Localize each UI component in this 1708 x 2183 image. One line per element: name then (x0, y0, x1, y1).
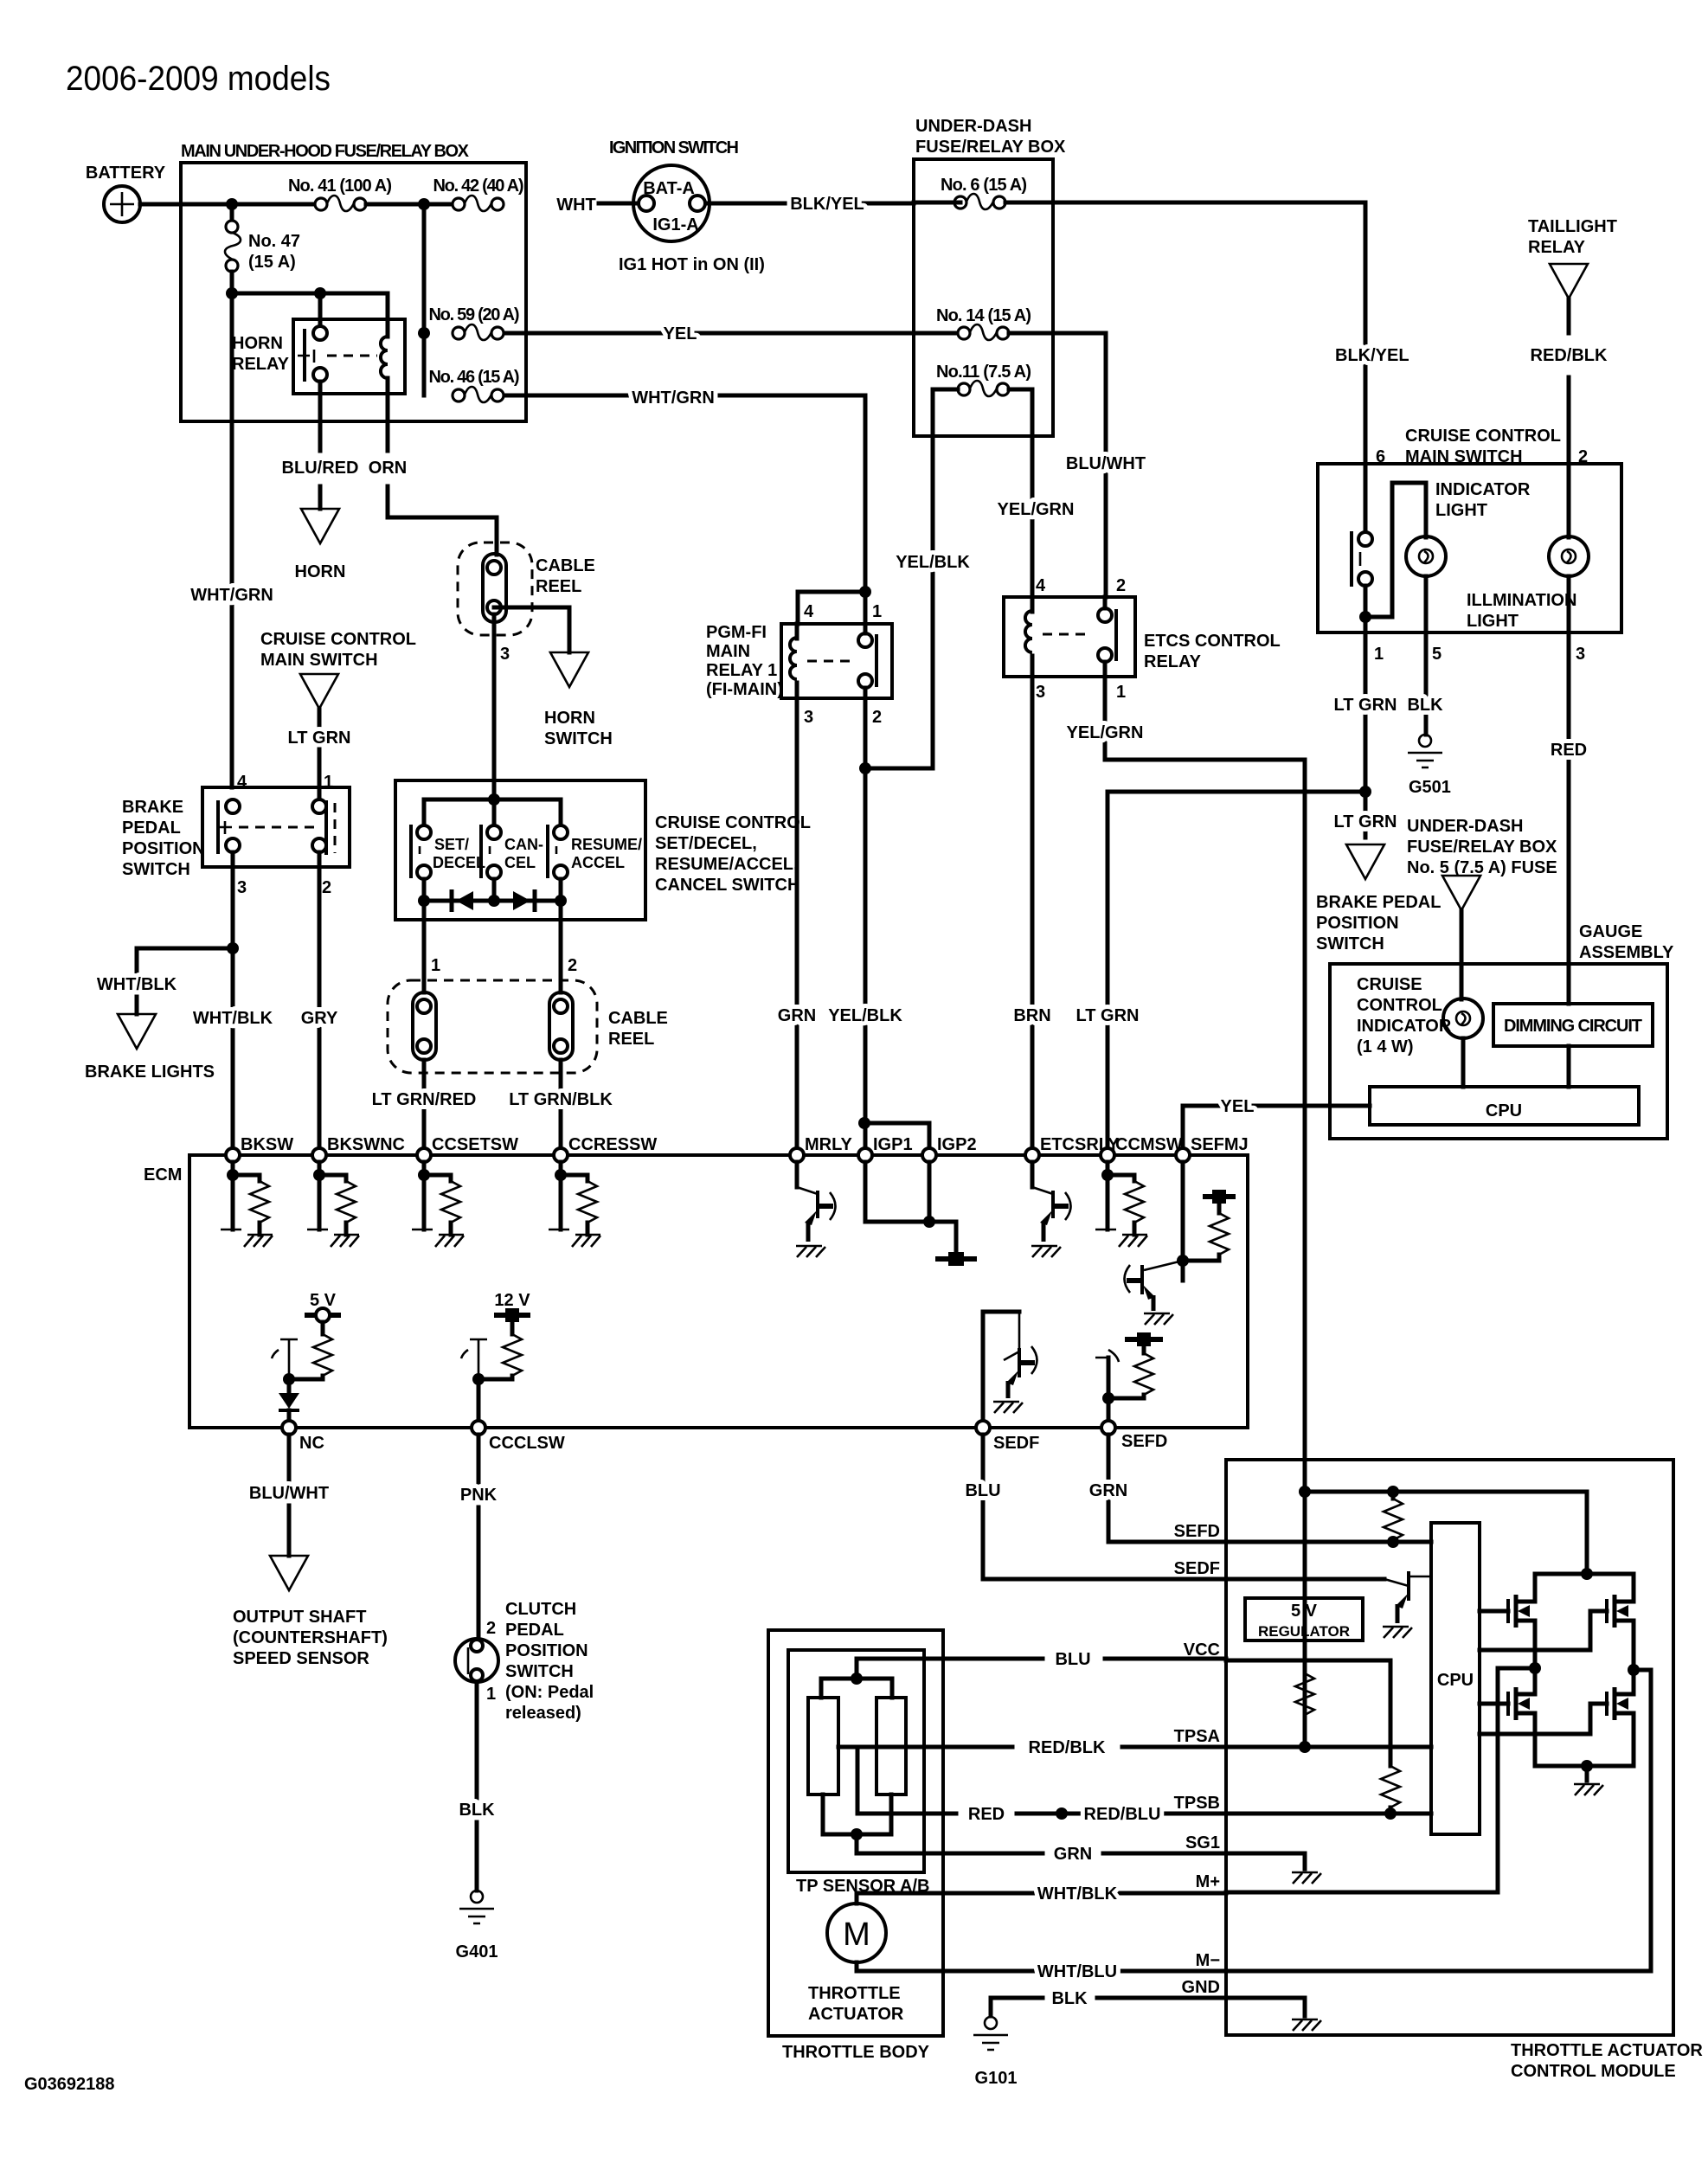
svg-text:POSITION: POSITION (1316, 914, 1399, 933)
svg-text:ACCEL: ACCEL (571, 854, 625, 871)
wire GND row (1226, 1998, 1305, 2016)
svg-text:SWITCH: SWITCH (1316, 934, 1384, 953)
TACM input transistor (1384, 1579, 1409, 1586)
MOSFET Q1 upper-left (1480, 1609, 1508, 1614)
H-bridge mid nodes (1529, 1662, 1541, 1674)
svg-text:DECEL: DECEL (433, 854, 485, 871)
svg-text:VCC: VCC (1184, 1640, 1220, 1660)
wire RED/BLK TPSA (838, 1745, 1226, 1750)
svg-text:CONTROL: CONTROL (1357, 996, 1442, 1015)
svg-text:No. 6 (15 A): No. 6 (15 A) (941, 176, 1027, 195)
cable reel upper (458, 543, 532, 635)
svg-text:LIGHT: LIGHT (1467, 612, 1519, 631)
svg-text:LT GRN: LT GRN (1334, 812, 1397, 831)
svg-text:MAIN: MAIN (706, 642, 750, 661)
svg-text:IGP1: IGP1 (873, 1135, 913, 1154)
svg-text:LT GRN/BLK: LT GRN/BLK (509, 1090, 613, 1109)
svg-text:(1 4 W): (1 4 W) (1357, 1037, 1414, 1056)
terminal BKSWNC (312, 1148, 326, 1162)
PGM-FI relay coil (790, 638, 797, 679)
wire indicator bulb to pin5 (1424, 576, 1429, 632)
wire to indicator light (1365, 483, 1426, 617)
ground G401 (459, 1891, 494, 1923)
svg-text:SWITCH: SWITCH (122, 860, 190, 879)
TP sensor VCC bus (821, 1659, 892, 1698)
wire cable reel to cruise switches (492, 614, 497, 799)
svg-text:PEDAL: PEDAL (505, 1621, 564, 1640)
wire regulator chain (1303, 1640, 1307, 1673)
svg-text:BATTERY: BATTERY (86, 164, 166, 183)
svg-text:(COUNTERSHAFT): (COUNTERSHAFT) (233, 1628, 388, 1647)
svg-text:G501: G501 (1409, 778, 1451, 797)
svg-text:RESUME/: RESUME/ (571, 836, 642, 853)
5V regulator box (1245, 1598, 1363, 1640)
MOSFET Q4 lower-right (1480, 1704, 1607, 1734)
svg-text:CABLE: CABLE (536, 556, 595, 575)
wire horn relay feed (232, 293, 388, 337)
wire LT GRN/BLK to CCRESSW (559, 1060, 563, 1148)
svg-text:PEDAL: PEDAL (122, 819, 181, 838)
wire YEL/BLK pin2 to IGP1 (864, 698, 868, 1148)
terminal NC (282, 1421, 296, 1435)
svg-text:No.11 (7.5 A): No.11 (7.5 A) (936, 363, 1031, 382)
cancel switch (487, 825, 501, 839)
resistor VCC to TPSB (1381, 1766, 1400, 1807)
wire CCCLSW to clutch switch (477, 1435, 481, 1483)
svg-text:1: 1 (872, 602, 882, 621)
svg-text:GND: GND (1182, 1978, 1220, 1997)
svg-text:CCCLSW: CCCLSW (489, 1434, 565, 1453)
svg-text:M: M (843, 1917, 870, 1953)
svg-text:SEDF: SEDF (993, 1434, 1039, 1453)
wire to brake lights (137, 948, 233, 973)
svg-text:GRN: GRN (1089, 1481, 1127, 1500)
svg-text:(15 A): (15 A) (248, 253, 296, 272)
svg-text:1: 1 (431, 956, 440, 975)
node horn relay switch branch (314, 287, 326, 299)
svg-text:RED/BLK: RED/BLK (1029, 1738, 1106, 1757)
ETCS control relay (1004, 597, 1135, 677)
svg-text:BLK: BLK (459, 1801, 495, 1820)
wire cable reel to horn switch (494, 607, 569, 652)
svg-text:BRAKE LIGHTS: BRAKE LIGHTS (85, 1063, 215, 1082)
svg-text:1: 1 (1116, 683, 1126, 702)
IGP1/IGP2 ground wires (865, 1162, 956, 1253)
svg-text:2: 2 (486, 1619, 496, 1638)
svg-text:12 V: 12 V (494, 1291, 530, 1310)
svg-text:LIGHT: LIGHT (1435, 501, 1487, 520)
svg-text:HORN: HORN (232, 334, 283, 353)
dimming circuit box (1493, 1004, 1653, 1046)
svg-text:WHT/BLK: WHT/BLK (97, 975, 177, 994)
CCMSW input cell (1095, 1162, 1147, 1247)
wire BLK GND (991, 1998, 1226, 2016)
svg-text:CRUISE CONTROL: CRUISE CONTROL (655, 813, 811, 832)
svg-text:DIMMING CIRCUIT: DIMMING CIRCUIT (1504, 1017, 1642, 1036)
BKSW input cell (221, 1162, 273, 1247)
wire YEL to under-dash box (504, 331, 958, 336)
wire VCC row (1226, 1660, 1390, 1766)
MRLY output transistor (795, 1162, 799, 1187)
svg-text:RELAY: RELAY (1144, 652, 1202, 671)
svg-text:CCRESSW: CCRESSW (568, 1135, 657, 1154)
svg-text:ECM: ECM (144, 1165, 182, 1185)
svg-text:GAUGE: GAUGE (1579, 922, 1642, 941)
wire fuse11 left to YEL/BLK (865, 389, 958, 768)
svg-text:RED: RED (968, 1805, 1005, 1824)
svg-text:WHT/BLU: WHT/BLU (1037, 1962, 1117, 1981)
svg-text:YEL/BLK: YEL/BLK (828, 1006, 902, 1025)
svg-text:SG1: SG1 (1185, 1833, 1220, 1852)
svg-text:3: 3 (1036, 683, 1045, 702)
node fuse42 feed junction (418, 198, 430, 210)
gauge CPU box (1370, 1087, 1639, 1125)
svg-text:SWITCH: SWITCH (505, 1662, 574, 1681)
wire horn relay coil to ORN (386, 378, 390, 451)
svg-text:GRY: GRY (301, 1009, 338, 1028)
wire TPSA row (1226, 1745, 1431, 1750)
svg-text:2006-2009 models: 2006-2009 models (66, 60, 331, 98)
svg-text:MAIN SWITCH: MAIN SWITCH (260, 651, 378, 670)
svg-text:YEL/GRN: YEL/GRN (1067, 723, 1144, 742)
svg-text:HORN: HORN (544, 709, 595, 728)
node TACM feed junction (1299, 1486, 1311, 1498)
svg-text:LT GRN: LT GRN (1334, 696, 1397, 715)
svg-text:ILLMINATION: ILLMINATION (1467, 591, 1576, 610)
wire relay pin4 feed (798, 592, 865, 624)
svg-text:BLU: BLU (1055, 1650, 1090, 1669)
svg-text:RED/BLK: RED/BLK (1531, 346, 1608, 365)
wire M+ row (1226, 1668, 1537, 1892)
node main switch output junction (1359, 611, 1371, 623)
svg-text:G401: G401 (456, 1942, 498, 1961)
ETCS relay coil (1025, 611, 1032, 652)
svg-text:ASSEMBLY: ASSEMBLY (1579, 943, 1674, 962)
TP sensor element A (808, 1698, 838, 1795)
svg-text:TPSA: TPSA (1174, 1727, 1220, 1746)
svg-text:INDICATOR: INDICATOR (1357, 1017, 1452, 1036)
svg-text:THROTTLE: THROTTLE (808, 1984, 901, 2003)
svg-text:RELAY: RELAY (1528, 238, 1586, 257)
svg-text:CRUISE CONTROL: CRUISE CONTROL (1405, 427, 1561, 446)
wire YEL from CPU to SEFMJ (1183, 1106, 1370, 1148)
wire NC to speed sensor (287, 1435, 292, 1481)
svg-text:ORN: ORN (369, 459, 407, 478)
TP sensor A/B box (788, 1650, 924, 1872)
wire LT GRN to CCMSW (1108, 792, 1365, 1148)
wire BLK to G401 (475, 1682, 479, 1798)
svg-text:HORN: HORN (295, 562, 346, 581)
node IGP2 branch junction (858, 1117, 870, 1129)
wire fuse14 to BLU/WHT (1009, 333, 1106, 597)
svg-text:FUSE/RELAY BOX: FUSE/RELAY BOX (915, 138, 1066, 157)
terminal CCRESSW (554, 1148, 568, 1162)
cable reel lower (388, 980, 597, 1073)
svg-text:BKSW: BKSW (241, 1135, 293, 1154)
wire SG1 row (1226, 1853, 1305, 1869)
wire LT GRN/RED to CCSETSW (422, 1060, 427, 1148)
wire BLK/YEL bus through box (914, 201, 1365, 205)
BKSWNC input cell (307, 1162, 359, 1247)
svg-text:LT GRN: LT GRN (288, 729, 351, 748)
SEFD pull-up (1107, 1358, 1111, 1421)
svg-text:SEFD: SEFD (1121, 1432, 1167, 1451)
svg-text:GRN: GRN (778, 1006, 816, 1025)
svg-text:CONTROL MODULE: CONTROL MODULE (1511, 2062, 1676, 2081)
wire illumination bulb to pin3 (1567, 576, 1571, 632)
svg-text:PNK: PNK (460, 1486, 498, 1505)
svg-text:ACTUATOR: ACTUATOR (808, 2005, 904, 2024)
wire BLK/YEL down to cruise switch (1364, 202, 1368, 522)
ETCS relay contacts (1098, 608, 1112, 622)
node battery feed junction (226, 198, 238, 210)
svg-text:G101: G101 (975, 2069, 1018, 2088)
terminal CCSETSW (417, 1148, 431, 1162)
svg-text:TPSB: TPSB (1174, 1794, 1220, 1813)
wire RED / RED/BLU TPSB (857, 1749, 1226, 1814)
svg-text:BLK/YEL: BLK/YEL (790, 195, 864, 214)
svg-text:3: 3 (1576, 645, 1585, 664)
brake pedal position switch connector (1346, 844, 1384, 879)
svg-text:IG1 HOT in ON (II): IG1 HOT in ON (II) (619, 255, 765, 274)
resume/accel switch (554, 825, 568, 839)
svg-text:No. 41 (100 A): No. 41 (100 A) (288, 177, 392, 196)
svg-text:NC: NC (299, 1434, 324, 1453)
wire brake switch pin3 to BKSW (231, 852, 235, 1148)
brake lights connector (118, 1014, 156, 1049)
svg-text:POSITION: POSITION (122, 839, 205, 858)
terminal SEFMJ (1176, 1148, 1190, 1162)
svg-text:3: 3 (237, 878, 247, 897)
svg-text:(FI-MAIN): (FI-MAIN) (706, 680, 783, 699)
svg-text:WHT/GRN: WHT/GRN (632, 388, 715, 408)
terminal ETCSRLY (1025, 1148, 1039, 1162)
svg-text:2: 2 (872, 708, 882, 727)
throttle actuator control module box (1226, 1460, 1673, 2035)
resistor TACM pull-up (1391, 1492, 1396, 1499)
wire GRN pin3 to MRLY (795, 698, 799, 1148)
MOSFET Q2 upper-right (1480, 1611, 1607, 1650)
svg-text:INDICATOR: INDICATOR (1435, 480, 1531, 499)
terminal SEFD (1101, 1421, 1115, 1435)
wire BLU VCC (857, 1657, 1226, 1661)
svg-text:CEL: CEL (504, 854, 536, 871)
transistor SEFMJ mirrored (1144, 1261, 1183, 1270)
svg-text:LT GRN: LT GRN (1076, 1006, 1140, 1025)
svg-text:(ON: Pedal: (ON: Pedal (505, 1683, 594, 1702)
svg-text:GRN: GRN (1054, 1845, 1092, 1864)
main switch contacts (1364, 467, 1368, 533)
svg-text:BKSWNC: BKSWNC (327, 1135, 405, 1154)
throttle body box (768, 1630, 943, 2036)
horn connector (318, 486, 323, 509)
svg-text:CRUISE: CRUISE (1357, 975, 1422, 994)
svg-text:No. 42 (40 A): No. 42 (40 A) (433, 177, 524, 196)
svg-text:BLK: BLK (1051, 1989, 1088, 2008)
svg-text:YEL: YEL (664, 324, 697, 344)
svg-text:RELAY: RELAY (232, 355, 290, 374)
wire WHT/GRN to PGM-FI relay (504, 395, 865, 624)
switch output bus (424, 879, 561, 920)
wire label RED pin3 (1567, 632, 1571, 1004)
svg-text:PGM-FI: PGM-FI (706, 623, 767, 642)
NC switch tick (272, 1339, 298, 1379)
terminal SEDF (976, 1421, 990, 1435)
wire ORN to cable reel (388, 486, 497, 555)
svg-text:UNDER-DASH: UNDER-DASH (915, 117, 1031, 136)
ground G501 (1408, 735, 1442, 767)
node switch feed junction (488, 793, 500, 806)
terminal BKSW (226, 1148, 240, 1162)
svg-text:UNDER-DASH: UNDER-DASH (1407, 817, 1523, 836)
CCCLSW switch tick (461, 1339, 487, 1379)
svg-text:1: 1 (1374, 645, 1384, 664)
wire switch to junction (1364, 586, 1368, 632)
svg-text:MRLY: MRLY (805, 1135, 852, 1154)
node brake lights branch (227, 942, 239, 954)
wire battery to fuse box (140, 202, 321, 207)
svg-text:No. 47: No. 47 (248, 232, 300, 251)
svg-text:BLK/YEL: BLK/YEL (1335, 346, 1409, 365)
wire fuse11 right to YEL/GRN (1009, 389, 1032, 597)
svg-text:CANCEL SWITCH: CANCEL SWITCH (655, 876, 799, 895)
throttle actuator motor M1 (857, 1893, 1226, 1904)
svg-text:CCMSW: CCMSW (1115, 1135, 1183, 1154)
svg-text:2: 2 (322, 878, 331, 897)
wire label LT GRN pin1 (1364, 632, 1368, 838)
svg-text:BRAKE: BRAKE (122, 798, 183, 817)
svg-text:IGP2: IGP2 (937, 1135, 977, 1154)
svg-text:IG1-A: IG1-A (652, 215, 698, 234)
svg-text:5: 5 (1432, 645, 1442, 664)
output shaft speed sensor connector (270, 1556, 308, 1590)
node PGM-FI relay feed junction (859, 586, 871, 598)
wire BRN pin3 to ETCSRLY (1031, 677, 1035, 1148)
TP sensor element B (876, 1698, 906, 1795)
wire GRN SG1 (857, 1852, 1226, 1856)
wire YEL/GRN pin1 to SEFMJ rail (1105, 677, 1305, 1747)
svg-text:G03692188: G03692188 (24, 2075, 115, 2094)
svg-text:SEFD: SEFD (1174, 1522, 1220, 1541)
svg-text:POSITION: POSITION (505, 1641, 588, 1660)
svg-text:3: 3 (500, 645, 510, 664)
svg-text:RED: RED (1551, 741, 1587, 760)
wire horn relay switch to BLU/RED (318, 382, 323, 451)
svg-text:BRN: BRN (1013, 1006, 1050, 1025)
svg-text:REEL: REEL (608, 1030, 654, 1049)
wire bulb to CPU (1461, 1038, 1466, 1087)
TP sensor ground bus (823, 1795, 891, 1853)
SEFMJ pull-up and transistor (1181, 1162, 1185, 1281)
svg-text:OUTPUT SHAFT: OUTPUT SHAFT (233, 1608, 366, 1627)
terminal CCCLSW (472, 1421, 485, 1435)
wire fuse41 to fuse42 (366, 202, 459, 207)
svg-text:CAN-: CAN- (504, 836, 543, 853)
terminal MRLY (790, 1148, 804, 1162)
node horn relay feed junction (226, 287, 238, 299)
cruise control set/decel resume/accel cancel switch box (395, 780, 645, 920)
svg-text:LT GRN/RED: LT GRN/RED (372, 1090, 477, 1109)
svg-text:BRAKE PEDAL: BRAKE PEDAL (1316, 893, 1441, 912)
illumination light bulb (1567, 464, 1571, 537)
svg-text:1: 1 (486, 1685, 496, 1704)
svg-text:BLU/WHT: BLU/WHT (249, 1484, 329, 1503)
diode D1 (456, 891, 473, 910)
fuse No.59 (20A) (422, 204, 427, 395)
PGM-FI relay contacts (858, 633, 872, 647)
wire M- row (1226, 1670, 1651, 1971)
svg-text:3: 3 (804, 708, 813, 727)
terminal IGP2 (922, 1148, 936, 1162)
SEDF driver transistor (983, 1312, 1019, 1421)
svg-text:TAILLIGHT: TAILLIGHT (1528, 217, 1617, 236)
ETCSRLY output transistor (1031, 1162, 1035, 1187)
svg-text:IGNITION SWITCH: IGNITION SWITCH (609, 138, 739, 157)
wire WHT/BLU M- (857, 1962, 1226, 1971)
power ground IGP (935, 1252, 977, 1266)
CCSETSW input cell (412, 1162, 464, 1247)
terminal CCMSW (1101, 1148, 1114, 1162)
H-bridge bottom bus (1535, 1766, 1634, 1781)
diode NC (287, 1379, 292, 1393)
svg-text:CRUISE CONTROL: CRUISE CONTROL (260, 630, 416, 649)
set/decel switch (417, 825, 431, 839)
svg-text:SWITCH: SWITCH (544, 729, 613, 748)
svg-text:2: 2 (568, 956, 577, 975)
svg-text:YEL: YEL (1221, 1097, 1255, 1116)
svg-text:YEL/GRN: YEL/GRN (998, 500, 1075, 519)
svg-text:MAIN UNDER-HOOD FUSE/RELAY BOX: MAIN UNDER-HOOD FUSE/RELAY BOX (181, 142, 470, 161)
svg-text:BLU/RED: BLU/RED (282, 459, 359, 478)
wire SEFD row (1108, 1435, 1431, 1542)
wire TPSB row (1226, 1812, 1431, 1816)
svg-text:WHT/BLK: WHT/BLK (193, 1009, 273, 1028)
svg-text:CABLE: CABLE (608, 1009, 668, 1028)
svg-text:M+: M+ (1196, 1872, 1220, 1891)
horn switch connector (550, 652, 588, 687)
svg-text:CLUTCH: CLUTCH (505, 1600, 576, 1619)
svg-text:SPEED SENSOR: SPEED SENSOR (233, 1649, 369, 1668)
svg-text:CPU: CPU (1437, 1671, 1474, 1690)
H-bridge feed node (1581, 1568, 1593, 1580)
svg-text:CPU: CPU (1486, 1101, 1522, 1120)
svg-text:SET/: SET/ (434, 836, 469, 853)
svg-text:RESUME/ACCEL,: RESUME/ACCEL, (655, 855, 799, 874)
wire SEDF row (983, 1435, 1384, 1579)
svg-text:WHT/GRN: WHT/GRN (190, 586, 273, 605)
svg-text:RED/BLU: RED/BLU (1084, 1805, 1161, 1824)
TACM CPU box (1431, 1523, 1480, 1834)
ground G101 (973, 2017, 1008, 2050)
node LT GRN junction (1359, 786, 1371, 798)
svg-text:SEDF: SEDF (1174, 1559, 1220, 1578)
svg-text:M−: M− (1196, 1951, 1220, 1970)
svg-text:THROTTLE ACTUATOR: THROTTLE ACTUATOR (1511, 2041, 1703, 2060)
svg-text:CCSETSW: CCSETSW (432, 1135, 518, 1154)
svg-text:4: 4 (1036, 576, 1046, 595)
terminal IGP1 (858, 1148, 872, 1162)
svg-text:THROTTLE BODY: THROTTLE BODY (782, 2043, 930, 2062)
diode D2 (513, 891, 530, 910)
svg-text:2: 2 (1116, 576, 1126, 595)
svg-text:4: 4 (804, 602, 814, 621)
svg-text:No. 59 (20 A): No. 59 (20 A) (429, 305, 520, 324)
MOSFET Q3 lower-left (1480, 1702, 1508, 1706)
svg-text:released): released) (505, 1704, 581, 1723)
svg-text:WHT: WHT (556, 196, 596, 215)
CCRESSW input cell (549, 1162, 600, 1247)
svg-text:BLU: BLU (965, 1481, 1000, 1500)
